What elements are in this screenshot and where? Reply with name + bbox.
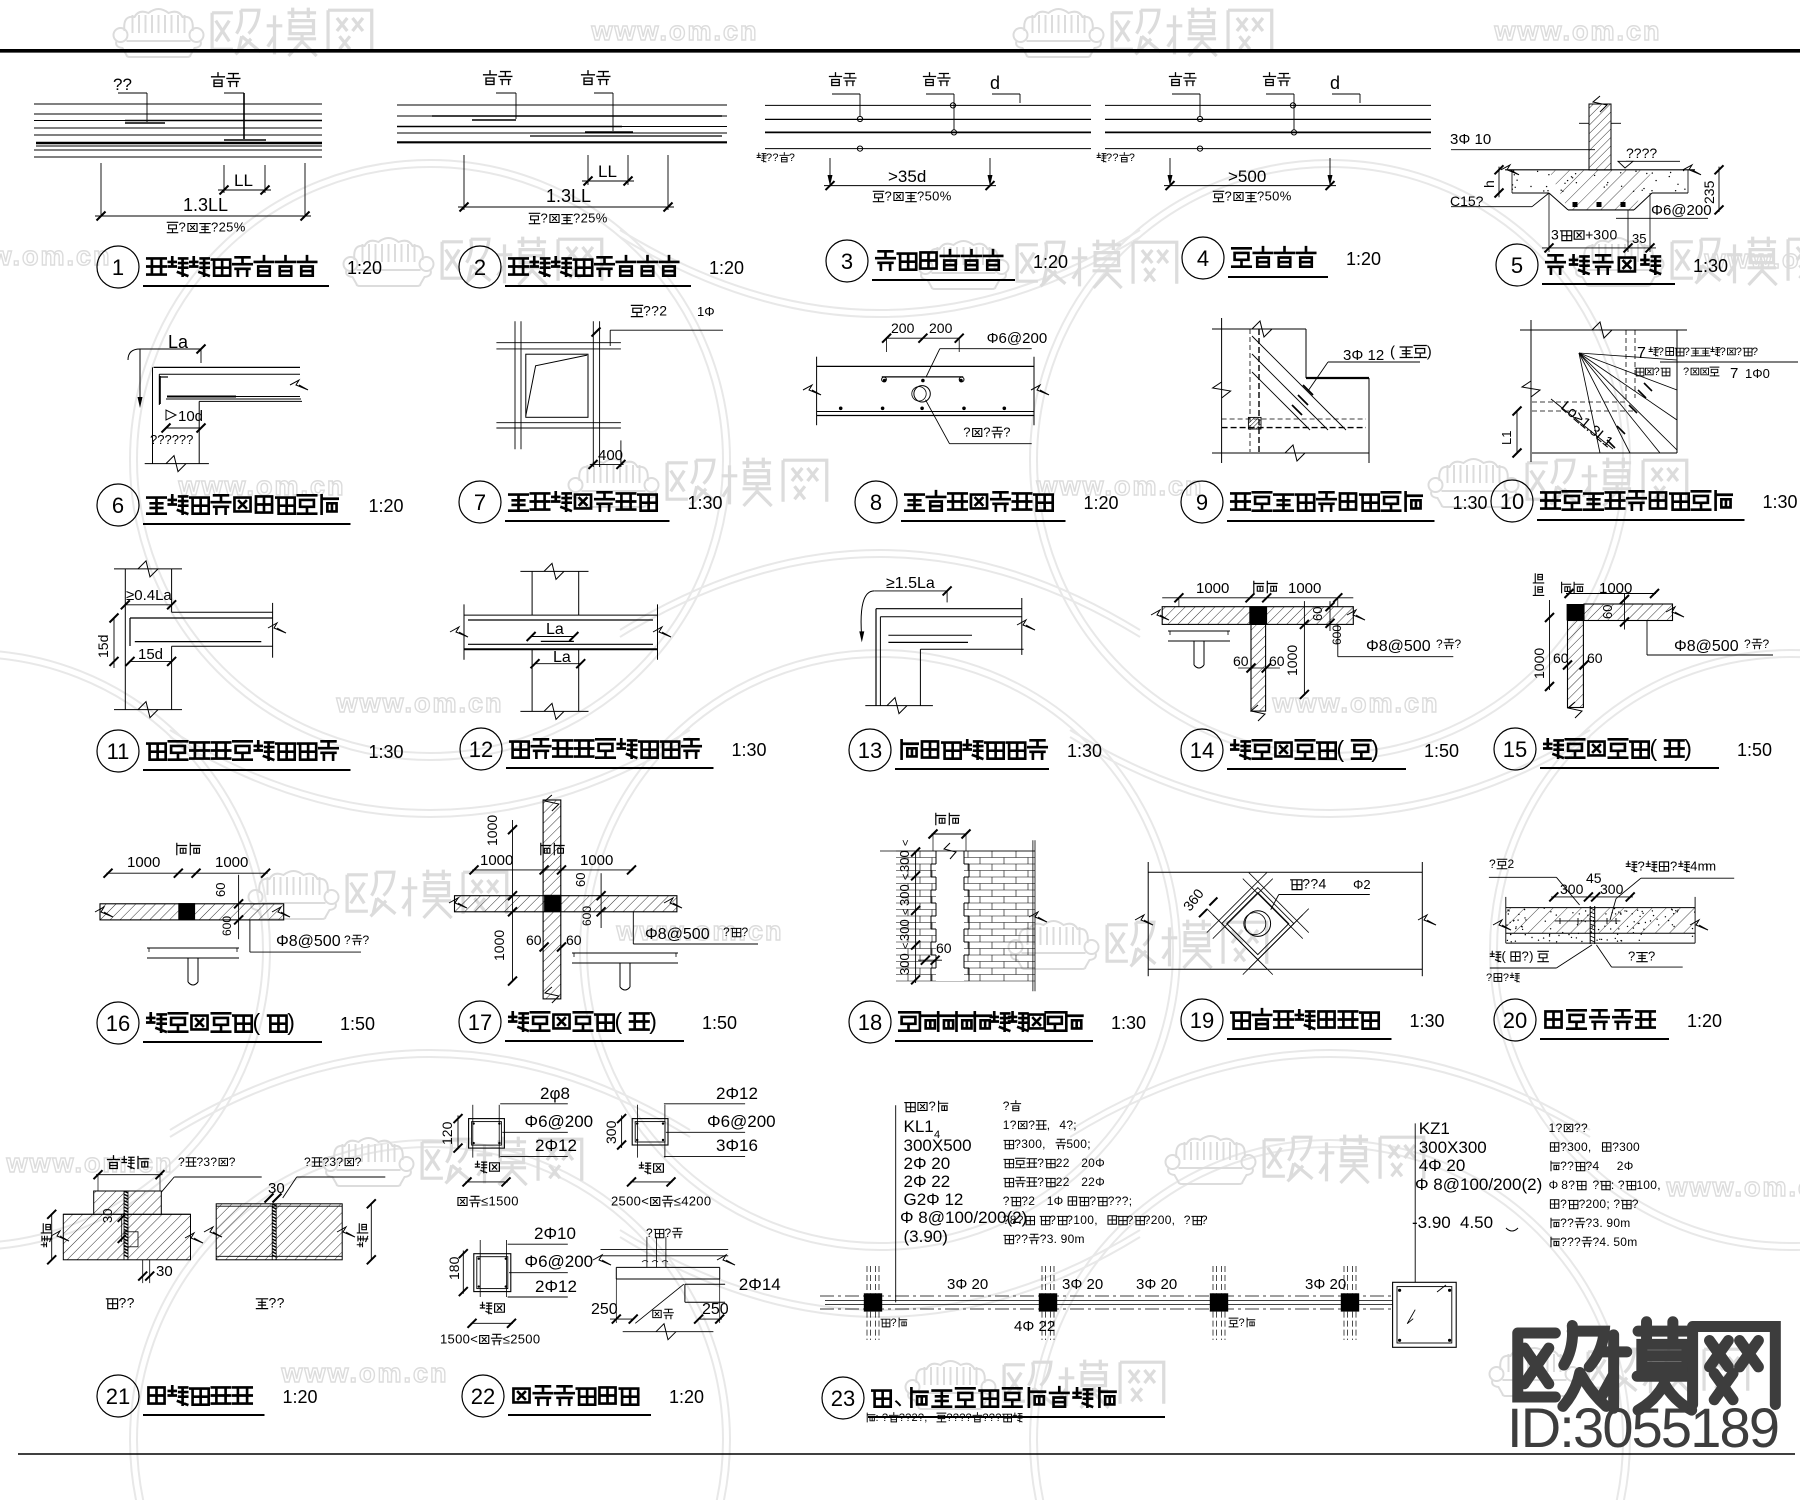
svg-text:1000: 1000 [215, 854, 248, 871]
svg-text:d: d [990, 73, 1000, 93]
svg-text:35: 35 [1632, 231, 1646, 246]
svg-text:www.om.cn: www.om.cn [1035, 471, 1203, 501]
svg-text:?: ? [1184, 1213, 1191, 1227]
svg-text:Φ8@500: Φ8@500 [645, 926, 710, 943]
svg-text:): ) [1529, 949, 1533, 964]
svg-text:?: ? [963, 425, 970, 440]
svg-text:?: ? [304, 1155, 311, 1169]
svg-text:180: 180 [446, 1256, 462, 1280]
svg-text:????: ???? [1626, 145, 1657, 161]
svg-text:?: ? [1618, 1178, 1625, 1192]
svg-text:?: ? [983, 425, 990, 440]
svg-text:?: ? [363, 933, 370, 947]
svg-text:20: 20 [1503, 1008, 1527, 1033]
svg-text:30: 30 [100, 1209, 115, 1223]
svg-text:(: ( [615, 1008, 623, 1034]
svg-text:?: ? [651, 303, 659, 319]
svg-text:(: ( [253, 1009, 261, 1035]
svg-text:5: 5 [518, 1332, 525, 1347]
svg-text:1:20: 1:20 [669, 1387, 704, 1407]
svg-text:3Φ16: 3Φ16 [716, 1136, 758, 1155]
svg-text:L1: L1 [1499, 431, 1514, 445]
svg-text:?: ? [573, 211, 580, 226]
svg-text:0: 0 [1601, 227, 1609, 243]
svg-text::: : [1611, 1178, 1614, 1192]
svg-text:?: ? [772, 152, 778, 164]
svg-text:?: ? [1586, 1159, 1593, 1173]
svg-text:2: 2 [1063, 1156, 1070, 1170]
svg-text:2: 2 [1508, 857, 1515, 871]
svg-text:,: , [1042, 1137, 1045, 1151]
svg-text:.: . [1054, 1232, 1057, 1246]
svg-text:?: ? [1684, 346, 1690, 358]
svg-text:4: 4 [1593, 1159, 1600, 1173]
svg-text:300: 300 [1600, 881, 1624, 897]
svg-text:1: 1 [1073, 1213, 1080, 1227]
svg-text:?: ? [643, 303, 651, 319]
svg-text:La: La [546, 621, 564, 638]
svg-text:Φ6@200: Φ6@200 [525, 1252, 594, 1271]
svg-text:%: % [940, 189, 952, 204]
svg-text:2: 2 [1586, 1197, 1593, 1211]
svg-text:300: 300 [897, 884, 912, 906]
svg-text:%: % [596, 211, 608, 226]
svg-text:1: 1 [440, 1332, 447, 1347]
svg-text:600: 600 [1330, 625, 1344, 645]
svg-text:0: 0 [463, 1332, 470, 1347]
svg-text:Φ: Φ [1549, 1178, 1559, 1192]
svg-text:1:20: 1:20 [709, 258, 744, 278]
svg-text:,: , [1047, 1118, 1050, 1132]
svg-text:?: ? [1302, 876, 1310, 892]
svg-text:?: ? [179, 220, 186, 235]
svg-text:1.3LL: 1.3LL [546, 186, 591, 206]
svg-text:<: < [900, 874, 912, 880]
svg-text:Φ: Φ [1624, 1159, 1634, 1173]
svg-text:0: 0 [1643, 1178, 1650, 1192]
svg-text:?: ? [1560, 1159, 1567, 1173]
svg-text:): ) [287, 1009, 295, 1035]
svg-text:,: , [1172, 1213, 1175, 1227]
svg-text:7: 7 [1730, 365, 1738, 382]
svg-text:1:20: 1:20 [283, 1387, 318, 1407]
svg-text:?: ? [1040, 1232, 1047, 1246]
svg-text:1:20: 1:20 [347, 258, 382, 278]
svg-text:5: 5 [619, 1194, 626, 1209]
svg-text:?: ? [1683, 366, 1689, 378]
svg-text:(: ( [1650, 735, 1658, 761]
svg-text:5: 5 [496, 1194, 503, 1209]
svg-text:1000: 1000 [1288, 580, 1321, 597]
svg-text:,: , [1094, 1213, 1097, 1227]
svg-text:60: 60 [526, 932, 542, 948]
svg-text:?: ? [541, 211, 548, 226]
svg-text:≥0.4La: ≥0.4La [126, 587, 172, 604]
svg-text:2: 2 [689, 1194, 696, 1209]
svg-text:8: 8 [1561, 1178, 1568, 1192]
svg-text:0: 0 [626, 1194, 633, 1209]
svg-text:1:20: 1:20 [1033, 252, 1068, 272]
svg-text:3Φ 20: 3Φ 20 [1136, 1276, 1177, 1293]
svg-text:4Φ 22: 4Φ 22 [1014, 1318, 1055, 1335]
svg-text:60: 60 [1553, 650, 1569, 666]
svg-text:?: ? [1568, 1178, 1575, 1192]
svg-text:<: < [900, 943, 912, 949]
svg-text:0: 0 [455, 1332, 462, 1347]
svg-text:120: 120 [439, 1121, 455, 1145]
svg-text:1:30: 1:30 [1453, 493, 1488, 513]
svg-text:1:30: 1:30 [1763, 492, 1798, 512]
svg-text:30: 30 [156, 1263, 173, 1280]
svg-text:?: ? [1560, 1140, 1567, 1154]
svg-text:?: ? [119, 1295, 127, 1311]
svg-text:?: ? [1638, 859, 1645, 874]
svg-text:1:20: 1:20 [1084, 493, 1119, 513]
svg-text:KZ1: KZ1 [1419, 1119, 1450, 1138]
svg-text:1:20: 1:20 [1346, 249, 1381, 269]
svg-text:60: 60 [566, 932, 582, 948]
svg-text:-3.90: -3.90 [1412, 1213, 1451, 1232]
svg-text:0: 0 [696, 1194, 703, 1209]
svg-text:15d: 15d [95, 635, 111, 658]
svg-text:2φ8: 2φ8 [540, 1084, 570, 1103]
svg-text:?: ? [1486, 972, 1492, 984]
svg-text:1.3LL: 1.3LL [183, 195, 228, 215]
svg-text:Φ6@200: Φ6@200 [987, 330, 1048, 347]
svg-text:?: ? [1089, 1194, 1096, 1208]
svg-text:1:50: 1:50 [702, 1013, 737, 1033]
svg-text:?: ? [891, 1317, 897, 1329]
svg-text:??: ?? [113, 75, 132, 94]
svg-text:9: 9 [1196, 490, 1208, 515]
svg-text:?: ? [127, 1295, 135, 1311]
svg-text:?: ? [1556, 1121, 1563, 1135]
svg-text:?: ? [1112, 152, 1118, 164]
svg-text:;: ; [1129, 1194, 1132, 1208]
svg-text:16: 16 [106, 1011, 130, 1036]
svg-text:%: % [1280, 189, 1292, 204]
svg-text:Φ2: Φ2 [1353, 877, 1371, 892]
svg-text:300: 300 [897, 919, 912, 941]
svg-text:?: ? [1763, 637, 1770, 651]
svg-text:?: ? [1503, 972, 1509, 984]
svg-text:?: ? [1003, 425, 1010, 440]
svg-text:4: 4 [1319, 876, 1327, 892]
svg-text:Φ 8@100/200(2): Φ 8@100/200(2) [1415, 1175, 1542, 1194]
svg-text:5: 5 [1265, 189, 1272, 204]
svg-text:1:20: 1:20 [369, 496, 404, 516]
svg-text:?: ? [1736, 346, 1742, 358]
svg-text:4: 4 [1690, 859, 1697, 874]
svg-text:m: m [1705, 859, 1716, 874]
svg-text:(: ( [1390, 343, 1395, 360]
svg-text:1:20: 1:20 [1687, 1011, 1722, 1031]
svg-text:1:30: 1:30 [1067, 741, 1102, 761]
svg-text:2: 2 [510, 1332, 517, 1347]
svg-text:?: ? [742, 925, 749, 939]
svg-text:www.om.cn: www.om.cn [1271, 688, 1439, 718]
svg-text:60: 60 [573, 873, 588, 887]
svg-text:>500: >500 [1228, 167, 1266, 186]
svg-text:?: ? [1122, 1194, 1129, 1208]
svg-text:1:50: 1:50 [1737, 740, 1772, 760]
svg-text:5: 5 [1511, 253, 1523, 278]
svg-text:?: ? [1003, 1194, 1010, 1208]
svg-text:2Φ12: 2Φ12 [535, 1136, 577, 1155]
svg-text:60: 60 [213, 883, 228, 897]
svg-text:2: 2 [659, 303, 667, 319]
svg-text:?: ? [1658, 346, 1664, 358]
svg-text:): ) [1371, 736, 1379, 762]
svg-text:(3.90): (3.90) [904, 1227, 948, 1246]
svg-text:≤: ≤ [674, 1194, 681, 1209]
svg-text:?: ? [277, 1295, 285, 1311]
svg-text:1000: 1000 [1196, 580, 1229, 597]
svg-text:?: ? [178, 1155, 185, 1169]
svg-text:<: < [641, 1194, 649, 1209]
svg-text:3: 3 [1593, 227, 1601, 243]
svg-text:%: % [234, 220, 246, 235]
svg-text:.: . [1606, 1235, 1609, 1249]
svg-text:3Φ 20: 3Φ 20 [947, 1276, 988, 1293]
svg-text:4: 4 [681, 1194, 688, 1209]
svg-text:www.om.cn: www.om.cn [1493, 16, 1661, 46]
svg-text:4: 4 [1599, 1235, 1606, 1249]
svg-text:1:50: 1:50 [340, 1014, 375, 1034]
svg-text:): ) [1684, 735, 1692, 761]
svg-text:1000: 1000 [1531, 648, 1547, 679]
svg-text:Φ6@200: Φ6@200 [707, 1112, 776, 1131]
svg-text:7: 7 [1637, 345, 1646, 362]
svg-text:?: ? [917, 189, 924, 204]
svg-text:d: d [1330, 73, 1340, 93]
svg-text:<: < [470, 1332, 478, 1347]
svg-text:4Φ 20: 4Φ 20 [1419, 1156, 1466, 1175]
svg-text:60: 60 [1587, 650, 1603, 666]
svg-text:0: 0 [932, 189, 939, 204]
svg-text:3: 3 [329, 1155, 336, 1169]
svg-text:200: 200 [891, 320, 915, 336]
svg-text:3: 3 [1551, 227, 1559, 243]
svg-text:3Φ 10: 3Φ 10 [1450, 131, 1491, 148]
svg-text:m: m [1620, 1216, 1630, 1230]
svg-text:9: 9 [1061, 1232, 1068, 1246]
svg-text:?: ? [1522, 949, 1529, 964]
svg-text:300: 300 [1560, 881, 1584, 897]
svg-text:9: 9 [1606, 1216, 1613, 1230]
svg-text:15d: 15d [138, 646, 163, 663]
svg-text:Φ8@500: Φ8@500 [1366, 638, 1431, 655]
svg-text:,: , [1657, 1178, 1660, 1192]
svg-text:200: 200 [929, 320, 953, 336]
svg-text:>35d: >35d [888, 167, 926, 186]
svg-text:1000: 1000 [127, 854, 160, 871]
svg-text:?: ? [1648, 949, 1655, 964]
svg-text:LL: LL [234, 171, 253, 190]
svg-text:?: ? [1670, 859, 1677, 874]
svg-text:4.50: 4.50 [1460, 1213, 1493, 1232]
svg-text:?: ? [1037, 1156, 1044, 1170]
svg-text:1:50: 1:50 [1424, 741, 1459, 761]
svg-text:?: ? [210, 1155, 217, 1169]
svg-text:Φ: Φ [1095, 1175, 1105, 1189]
svg-text:15: 15 [1503, 737, 1527, 762]
svg-text:、: 、 [894, 1384, 917, 1410]
svg-text:<: < [900, 840, 912, 846]
svg-text:ID:3055189: ID:3055189 [1507, 1396, 1780, 1459]
svg-text:?: ? [1017, 1213, 1024, 1227]
svg-text:?: ? [1014, 1137, 1021, 1151]
svg-text:300: 300 [603, 1120, 619, 1144]
svg-text:): ) [1427, 343, 1432, 360]
svg-text:1: 1 [1003, 1118, 1010, 1132]
svg-text:0: 0 [1088, 1156, 1095, 1170]
svg-text:?: ? [1049, 1213, 1056, 1227]
svg-text:0: 0 [1272, 189, 1279, 204]
svg-text:?: ? [1239, 1317, 1245, 1329]
svg-text:;: ; [1087, 1137, 1090, 1151]
svg-text:250: 250 [591, 1301, 618, 1318]
svg-text:?: ? [1586, 1216, 1593, 1230]
svg-text:?: ? [1613, 1197, 1620, 1211]
svg-text:≥1.5La: ≥1.5La [886, 575, 935, 592]
svg-text:h: h [1481, 180, 1497, 188]
svg-text:0: 0 [533, 1332, 540, 1347]
svg-text:19: 19 [1190, 1008, 1214, 1033]
svg-text:600: 600 [580, 906, 594, 926]
svg-text:?: ? [355, 1155, 362, 1169]
svg-text:10d: 10d [178, 408, 203, 425]
svg-text:?: ? [211, 220, 218, 235]
svg-text:?: ? [1037, 1175, 1044, 1189]
svg-text:?: ? [885, 189, 892, 204]
svg-text:8: 8 [870, 490, 882, 515]
svg-text:?: ? [1201, 1213, 1208, 1227]
svg-text:www.om.cn: www.om.cn [0, 241, 112, 271]
svg-text:235: 235 [1701, 180, 1717, 204]
svg-text:?: ? [229, 1155, 236, 1169]
svg-text:?: ? [1014, 1232, 1021, 1246]
svg-text:?: ? [1752, 346, 1758, 358]
svg-text:Φ6@200: Φ6@200 [525, 1112, 594, 1131]
svg-text:400: 400 [598, 447, 623, 464]
svg-text:0: 0 [704, 1194, 711, 1209]
svg-text:+: + [1585, 227, 1593, 243]
svg-text:0: 0 [1610, 227, 1618, 243]
svg-text:?: ? [1654, 366, 1660, 378]
svg-text:1:30: 1:30 [1410, 1011, 1445, 1031]
svg-text:www.om.cn: www.om.cn [335, 688, 503, 718]
svg-text:2: 2 [474, 255, 486, 280]
svg-text:<: < [900, 909, 912, 915]
svg-text:0: 0 [1599, 1197, 1606, 1211]
svg-text:Φ8@500: Φ8@500 [276, 933, 341, 950]
svg-text:??????: ?????? [150, 432, 193, 447]
svg-text:): ) [649, 1008, 657, 1034]
svg-text:?: ? [1593, 1178, 1600, 1192]
svg-text:3: 3 [203, 1155, 210, 1169]
svg-text:G2Φ 12: G2Φ 12 [904, 1190, 964, 1209]
svg-text:300X300: 300X300 [1419, 1138, 1487, 1157]
svg-text:1: 1 [1549, 1121, 1556, 1135]
svg-text:?: ? [766, 152, 772, 164]
svg-text:5: 5 [588, 211, 595, 226]
svg-text:1:30: 1:30 [1693, 256, 1728, 276]
svg-text:?: ? [1108, 1194, 1115, 1208]
svg-text:?: ? [1436, 637, 1443, 651]
svg-text:6: 6 [112, 493, 124, 518]
svg-text:?: ? [929, 1099, 936, 1114]
svg-text:KL1: KL1 [904, 1117, 934, 1136]
svg-text:m: m [1075, 1232, 1085, 1246]
svg-text:?: ? [1003, 1213, 1010, 1227]
svg-text:?: ? [789, 152, 795, 164]
svg-text:13: 13 [858, 738, 882, 763]
svg-text:1: 1 [112, 255, 124, 280]
svg-text:2: 2 [581, 211, 588, 226]
svg-text:?: ? [1574, 1235, 1581, 1249]
svg-text:11: 11 [107, 739, 130, 764]
svg-text:2: 2 [611, 1194, 618, 1209]
svg-text:60: 60 [1600, 605, 1615, 619]
svg-text:1000: 1000 [1284, 645, 1300, 676]
svg-text:LL: LL [598, 162, 617, 181]
svg-text:300: 300 [897, 953, 912, 975]
svg-text:1:30: 1:30 [1111, 1013, 1146, 1033]
svg-text:?: ? [1028, 1118, 1035, 1132]
svg-text:1Φ0: 1Φ0 [1745, 366, 1770, 381]
svg-text:4: 4 [1197, 246, 1209, 271]
svg-text:?: ? [1567, 1216, 1574, 1230]
svg-text:0: 0 [504, 1194, 511, 1209]
svg-text:?: ? [1021, 1232, 1028, 1246]
svg-text:250: 250 [702, 1301, 729, 1318]
svg-text:1:30: 1:30 [369, 742, 404, 762]
svg-text:?: ? [1744, 637, 1751, 651]
svg-text:?: ? [1257, 189, 1264, 204]
svg-text:0: 0 [634, 1194, 641, 1209]
svg-text:0: 0 [1620, 1235, 1627, 1249]
svg-text:;: ; [1606, 1197, 1609, 1211]
svg-text:1000: 1000 [480, 852, 513, 869]
svg-text:1000: 1000 [580, 852, 613, 869]
svg-text:?: ? [1066, 1213, 1073, 1227]
svg-text:0: 0 [1028, 1137, 1035, 1151]
svg-text:?: ? [1628, 949, 1635, 964]
svg-text:?: ? [1560, 1216, 1567, 1230]
svg-text:?: ? [1574, 1121, 1581, 1135]
svg-text:2Φ12: 2Φ12 [716, 1084, 758, 1103]
svg-text:2Φ10: 2Φ10 [534, 1224, 576, 1243]
svg-text:1: 1 [489, 1194, 496, 1209]
svg-text:3Φ 12: 3Φ 12 [1343, 347, 1384, 364]
svg-text:14: 14 [1190, 738, 1214, 763]
svg-text:7: 7 [474, 490, 486, 515]
svg-text:5: 5 [925, 189, 932, 204]
svg-text:?: ? [344, 933, 351, 947]
svg-text:≤: ≤ [481, 1194, 488, 1209]
svg-text:,: , [1588, 1140, 1591, 1154]
svg-text:60: 60 [1310, 607, 1325, 621]
svg-text:12: 12 [469, 737, 493, 762]
svg-text:?: ? [1560, 1235, 1567, 1249]
svg-text:(: ( [1337, 736, 1345, 762]
svg-text:3Φ 20: 3Φ 20 [1305, 1276, 1346, 1293]
svg-text:1:30: 1:30 [688, 493, 723, 513]
svg-text:?: ? [1455, 637, 1462, 651]
svg-text:3: 3 [841, 249, 853, 274]
svg-text:www.om.cn: www.om.cn [1665, 1172, 1800, 1202]
